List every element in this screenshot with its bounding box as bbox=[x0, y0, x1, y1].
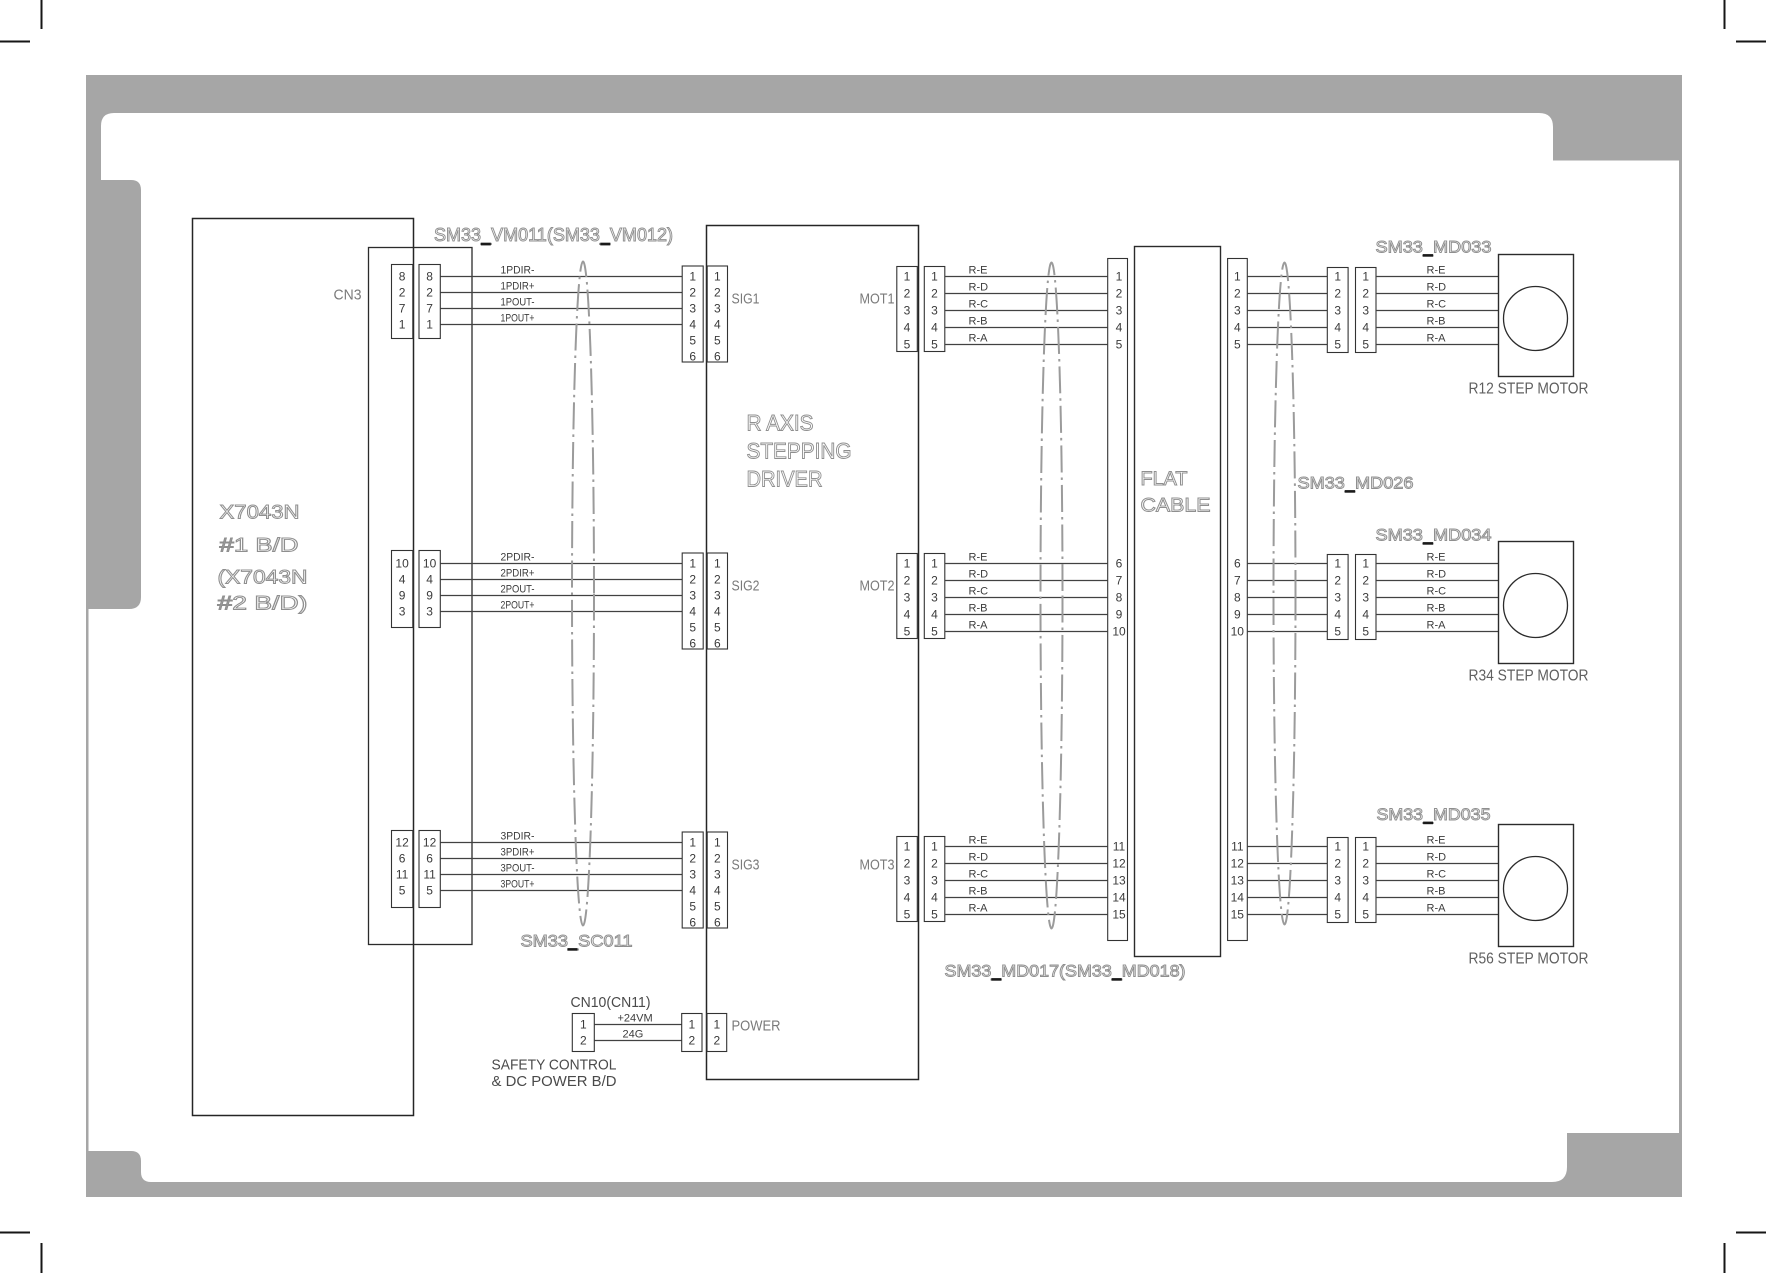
svg-text:1: 1 bbox=[1362, 557, 1369, 571]
wire R-B to step motor 2 bbox=[1376, 614, 1499, 616]
svg-text:1: 1 bbox=[688, 1018, 695, 1032]
svg-text:3: 3 bbox=[714, 302, 721, 316]
svg-text:R-D: R-D bbox=[1427, 282, 1447, 294]
svg-text:R-D: R-D bbox=[969, 282, 989, 294]
svg-text:3: 3 bbox=[689, 868, 696, 882]
svg-text:3: 3 bbox=[399, 605, 406, 619]
svg-text:4: 4 bbox=[1334, 608, 1341, 622]
svg-text:6: 6 bbox=[689, 916, 696, 930]
wire R-D to step motor 3 bbox=[1376, 863, 1499, 865]
svg-text:4: 4 bbox=[1234, 321, 1241, 335]
svg-text:R-A: R-A bbox=[1427, 333, 1447, 345]
svg-text:4: 4 bbox=[1116, 321, 1123, 335]
svg-text:12: 12 bbox=[1112, 857, 1126, 871]
svg-text:5: 5 bbox=[904, 338, 911, 352]
svg-text:1POUT+: 1POUT+ bbox=[501, 313, 535, 325]
svg-text:3PDIR+: 3PDIR+ bbox=[501, 847, 535, 859]
svg-text:1PDIR+: 1PDIR+ bbox=[501, 281, 535, 293]
svg-text:2: 2 bbox=[689, 852, 696, 866]
svg-text:3: 3 bbox=[1362, 874, 1369, 888]
svg-text:2: 2 bbox=[714, 286, 721, 300]
wire R-D to step motor 1 bbox=[1376, 293, 1499, 295]
wire R-A to step motor 3 bbox=[1376, 914, 1499, 916]
svg-text:3: 3 bbox=[931, 591, 938, 605]
svg-text:6: 6 bbox=[1234, 557, 1241, 571]
svg-text:3: 3 bbox=[904, 591, 911, 605]
svg-text:1: 1 bbox=[1234, 270, 1241, 284]
wire 2PDIR+ bbox=[441, 579, 683, 581]
svg-text:4: 4 bbox=[426, 573, 433, 587]
motor cable connector group 3 (right block) bbox=[1356, 838, 1377, 923]
svg-text:5: 5 bbox=[1116, 338, 1123, 352]
svg-text:MOT3: MOT3 bbox=[860, 857, 895, 874]
wire R-A to step motor 1 bbox=[1376, 344, 1499, 346]
wire flat cable 8 to motor connector bbox=[1247, 597, 1327, 599]
wire R-D to step motor 2 bbox=[1376, 580, 1499, 582]
svg-text:6: 6 bbox=[714, 916, 721, 930]
svg-text:2: 2 bbox=[1334, 287, 1341, 301]
svg-text:4: 4 bbox=[689, 884, 696, 898]
svg-text:1POUT-: 1POUT- bbox=[501, 297, 535, 309]
wire 2POUT+ bbox=[441, 611, 683, 613]
svg-text:15: 15 bbox=[1231, 908, 1245, 922]
svg-text:R-E: R-E bbox=[969, 265, 988, 277]
svg-text:SIG2: SIG2 bbox=[732, 578, 760, 595]
svg-text:11: 11 bbox=[423, 868, 436, 882]
svg-text:7: 7 bbox=[1234, 574, 1241, 588]
svg-text:3: 3 bbox=[689, 302, 696, 316]
wire R-C to step motor 1 bbox=[1376, 310, 1499, 312]
svg-text:3: 3 bbox=[931, 304, 938, 318]
svg-text:1: 1 bbox=[714, 270, 721, 284]
svg-text:SM33_SC011: SM33_SC011 bbox=[521, 932, 633, 951]
wire +24VM bbox=[594, 1024, 681, 1026]
motor cable connector group 1 (left block) bbox=[1327, 268, 1348, 353]
svg-text:CABLE: CABLE bbox=[1141, 496, 1211, 517]
svg-text:14: 14 bbox=[1231, 891, 1245, 905]
svg-text:6: 6 bbox=[689, 350, 696, 364]
svg-text:9: 9 bbox=[426, 589, 433, 603]
svg-text:12: 12 bbox=[423, 836, 437, 850]
wire R-B MOT1 to flat cable bbox=[945, 327, 1108, 329]
svg-text:11: 11 bbox=[1231, 840, 1244, 854]
svg-text:R12 STEP MOTOR: R12 STEP MOTOR bbox=[1469, 381, 1589, 398]
svg-text:CN10(CN11): CN10(CN11) bbox=[571, 994, 651, 1011]
svg-text:R-E: R-E bbox=[969, 835, 988, 847]
svg-text:5: 5 bbox=[1362, 908, 1369, 922]
svg-text:2: 2 bbox=[689, 573, 696, 587]
svg-text:#1 B/D: #1 B/D bbox=[220, 536, 299, 557]
svg-text:5: 5 bbox=[1362, 338, 1369, 352]
svg-text:9: 9 bbox=[1116, 608, 1123, 622]
svg-text:2: 2 bbox=[714, 852, 721, 866]
connector SIG1 (outer block) bbox=[682, 266, 703, 362]
connector CN3 pin block group 1 (outer) bbox=[419, 265, 440, 339]
svg-text:5: 5 bbox=[1334, 625, 1341, 639]
svg-text:2: 2 bbox=[1234, 287, 1241, 301]
svg-text:2: 2 bbox=[931, 857, 938, 871]
wire R-E to step motor 3 bbox=[1376, 846, 1499, 848]
svg-text:3: 3 bbox=[1234, 304, 1241, 318]
wire R-D MOT2 to flat cable bbox=[945, 580, 1108, 582]
svg-text:3: 3 bbox=[426, 605, 433, 619]
svg-text:10: 10 bbox=[1112, 625, 1126, 639]
svg-text:R-C: R-C bbox=[1427, 869, 1447, 881]
svg-text:6: 6 bbox=[1116, 557, 1123, 571]
connector MOT2 (outer block) bbox=[924, 554, 945, 639]
svg-text:4: 4 bbox=[689, 605, 696, 619]
wire flat cable 13 to motor connector bbox=[1247, 880, 1327, 882]
svg-text:4: 4 bbox=[689, 318, 696, 332]
cable loop SM33_MD017 bbox=[1041, 263, 1063, 929]
connector CN3 pin block group 3 (outer) bbox=[419, 831, 440, 908]
svg-text:6: 6 bbox=[714, 350, 721, 364]
step motor R56 STEP MOTOR box bbox=[1499, 825, 1574, 947]
svg-text:R-E: R-E bbox=[1427, 265, 1446, 277]
svg-text:6: 6 bbox=[426, 852, 433, 866]
svg-text:X7043N: X7043N bbox=[220, 503, 300, 524]
svg-text:R34 STEP MOTOR: R34 STEP MOTOR bbox=[1469, 668, 1589, 685]
svg-text:1: 1 bbox=[689, 836, 696, 850]
wire R-A MOT1 to flat cable bbox=[945, 344, 1108, 346]
svg-text:3: 3 bbox=[904, 304, 911, 318]
connector MOT3 (outer block) bbox=[924, 837, 945, 922]
svg-text:5: 5 bbox=[904, 908, 911, 922]
svg-text:SM33_MD033: SM33_MD033 bbox=[1376, 238, 1492, 257]
connector SIG3 (outer block) bbox=[682, 832, 703, 928]
wire R-D MOT1 to flat cable bbox=[945, 293, 1108, 295]
connector MOT2 (inner block) bbox=[897, 554, 918, 639]
svg-text:1: 1 bbox=[1116, 270, 1123, 284]
svg-text:1PDIR-: 1PDIR- bbox=[501, 265, 535, 277]
svg-text:R-C: R-C bbox=[969, 586, 989, 598]
svg-text:2: 2 bbox=[904, 574, 911, 588]
svg-text:1: 1 bbox=[426, 318, 433, 332]
svg-text:R-A: R-A bbox=[969, 903, 989, 915]
svg-text:1: 1 bbox=[714, 557, 721, 571]
svg-text:1: 1 bbox=[1334, 557, 1341, 571]
svg-text:4: 4 bbox=[714, 884, 721, 898]
svg-text:3: 3 bbox=[714, 868, 721, 882]
connector SIG1 (inner block) bbox=[707, 266, 727, 362]
wire R-C to step motor 2 bbox=[1376, 597, 1499, 599]
step motor R34 STEP MOTOR rotor circle bbox=[1504, 574, 1568, 638]
svg-text:4: 4 bbox=[714, 605, 721, 619]
wire flat cable 2 to motor connector bbox=[1247, 293, 1327, 295]
svg-text:1: 1 bbox=[714, 836, 721, 850]
svg-text:7: 7 bbox=[399, 302, 406, 316]
wire 3PDIR+ bbox=[441, 858, 683, 860]
svg-text:4: 4 bbox=[1362, 321, 1369, 335]
svg-text:12: 12 bbox=[395, 836, 409, 850]
svg-text:R-B: R-B bbox=[969, 603, 988, 615]
svg-text:2: 2 bbox=[688, 1034, 695, 1048]
svg-text:R-E: R-E bbox=[1427, 835, 1446, 847]
svg-text:5: 5 bbox=[689, 334, 696, 348]
svg-text:R-A: R-A bbox=[969, 620, 989, 632]
wire 3POUT+ bbox=[441, 890, 683, 892]
svg-text:FLAT: FLAT bbox=[1141, 469, 1188, 490]
wire flat cable 7 to motor connector bbox=[1247, 580, 1327, 582]
svg-text:5: 5 bbox=[689, 900, 696, 914]
svg-text:R-A: R-A bbox=[1427, 620, 1447, 632]
wire 24G bbox=[594, 1040, 681, 1042]
wire flat cable 6 to motor connector bbox=[1247, 563, 1327, 565]
svg-text:4: 4 bbox=[399, 573, 406, 587]
svg-text:R AXIS: R AXIS bbox=[747, 411, 814, 436]
svg-text:4: 4 bbox=[1362, 891, 1369, 905]
wire 3POUT- bbox=[441, 874, 683, 876]
wire 3PDIR- bbox=[441, 842, 683, 844]
wire R-E MOT1 to flat cable bbox=[945, 276, 1108, 278]
svg-text:6: 6 bbox=[399, 852, 406, 866]
step motor R12 STEP MOTOR box bbox=[1499, 255, 1574, 377]
svg-text:5: 5 bbox=[904, 625, 911, 639]
svg-text:1: 1 bbox=[904, 557, 911, 571]
svg-text:6: 6 bbox=[689, 637, 696, 651]
wire flat cable 10 to motor connector bbox=[1247, 631, 1327, 633]
svg-text:5: 5 bbox=[714, 621, 721, 635]
svg-text:R-B: R-B bbox=[1427, 316, 1446, 328]
flat cable outline bbox=[1135, 247, 1221, 957]
svg-text:5: 5 bbox=[931, 625, 938, 639]
wire flat cable 11 to motor connector bbox=[1247, 846, 1327, 848]
wire R-D MOT3 to flat cable bbox=[945, 863, 1108, 865]
svg-text:2: 2 bbox=[904, 287, 911, 301]
svg-text:5: 5 bbox=[931, 908, 938, 922]
svg-text:#2 B/D): #2 B/D) bbox=[218, 594, 308, 615]
svg-text:10: 10 bbox=[395, 557, 409, 571]
svg-text:SM33_MD034: SM33_MD034 bbox=[1376, 526, 1492, 545]
svg-text:1: 1 bbox=[580, 1018, 587, 1032]
svg-text:7: 7 bbox=[426, 302, 433, 316]
cable loop SM33_SC011 bbox=[572, 262, 594, 926]
flat cable connector left bbox=[1108, 259, 1128, 941]
svg-text:2: 2 bbox=[426, 286, 433, 300]
svg-text:13: 13 bbox=[1112, 874, 1126, 888]
wire R-C to step motor 3 bbox=[1376, 880, 1499, 882]
svg-text:2: 2 bbox=[1334, 857, 1341, 871]
svg-text:MOT2: MOT2 bbox=[860, 578, 895, 595]
svg-text:11: 11 bbox=[396, 868, 409, 882]
svg-text:4: 4 bbox=[904, 608, 911, 622]
svg-text:SIG1: SIG1 bbox=[732, 291, 760, 308]
svg-text:8: 8 bbox=[1116, 591, 1123, 605]
svg-text:R-A: R-A bbox=[1427, 903, 1447, 915]
svg-text:4: 4 bbox=[1334, 321, 1341, 335]
svg-text:3: 3 bbox=[1334, 874, 1341, 888]
svg-text:4: 4 bbox=[904, 321, 911, 335]
svg-text:4: 4 bbox=[1362, 608, 1369, 622]
wire 1POUT- bbox=[441, 308, 683, 310]
gray page frame bbox=[86, 75, 1682, 1197]
connector CN3 pin block group 3 (inner) bbox=[392, 831, 413, 908]
svg-text:SM33_MD017(SM33_MD018): SM33_MD017(SM33_MD018) bbox=[945, 962, 1186, 981]
svg-text:15: 15 bbox=[1112, 908, 1126, 922]
connector MOT1 (inner block) bbox=[897, 267, 918, 352]
svg-text:1: 1 bbox=[399, 318, 406, 332]
connector MOT1 (outer block) bbox=[924, 267, 945, 352]
svg-text:2: 2 bbox=[904, 857, 911, 871]
svg-text:4: 4 bbox=[931, 321, 938, 335]
svg-text:3: 3 bbox=[714, 589, 721, 603]
wire R-A MOT2 to flat cable bbox=[945, 631, 1108, 633]
svg-text:SM33_VM011(SM33_VM012): SM33_VM011(SM33_VM012) bbox=[434, 225, 673, 246]
wire 1PDIR- bbox=[441, 276, 683, 278]
wire R-C MOT1 to flat cable bbox=[945, 310, 1108, 312]
svg-text:3: 3 bbox=[1116, 304, 1123, 318]
svg-text:POWER: POWER bbox=[732, 1018, 781, 1035]
svg-text:7: 7 bbox=[1116, 574, 1123, 588]
connector POWER (inner block) bbox=[707, 1014, 727, 1052]
wire R-B to step motor 1 bbox=[1376, 327, 1499, 329]
board X7043N #1 B/D outline bbox=[193, 219, 414, 1116]
connector CN3 pin block group 1 (inner) bbox=[392, 265, 413, 339]
wire flat cable 12 to motor connector bbox=[1247, 863, 1327, 865]
svg-text:8: 8 bbox=[1234, 591, 1241, 605]
svg-text:5: 5 bbox=[1334, 908, 1341, 922]
svg-text:1: 1 bbox=[714, 1018, 721, 1032]
svg-text:2: 2 bbox=[1362, 857, 1369, 871]
svg-text:9: 9 bbox=[399, 589, 406, 603]
wire flat cable 1 to motor connector bbox=[1247, 276, 1327, 278]
R axis stepping driver outline bbox=[707, 226, 919, 1080]
svg-text:MOT1: MOT1 bbox=[860, 291, 895, 308]
wire R-A to step motor 2 bbox=[1376, 631, 1499, 633]
svg-text:12: 12 bbox=[1231, 857, 1245, 871]
svg-text:4: 4 bbox=[1334, 891, 1341, 905]
svg-text:2: 2 bbox=[1334, 574, 1341, 588]
svg-text:3: 3 bbox=[1334, 591, 1341, 605]
connector MOT3 (inner block) bbox=[897, 837, 918, 922]
svg-text:9: 9 bbox=[1234, 608, 1241, 622]
svg-text:1: 1 bbox=[904, 840, 911, 854]
svg-text:R-C: R-C bbox=[969, 299, 989, 311]
svg-text:4: 4 bbox=[714, 318, 721, 332]
wire 2PDIR- bbox=[441, 563, 683, 565]
CN3 connector column outline bbox=[369, 248, 473, 945]
svg-text:SIG3: SIG3 bbox=[732, 857, 760, 874]
svg-text:5: 5 bbox=[689, 621, 696, 635]
wire flat cable 9 to motor connector bbox=[1247, 614, 1327, 616]
svg-text:& DC POWER B/D: & DC POWER B/D bbox=[492, 1073, 617, 1090]
svg-text:SAFETY CONTROL: SAFETY CONTROL bbox=[492, 1057, 617, 1074]
wire R-A MOT3 to flat cable bbox=[945, 914, 1108, 916]
svg-text:2: 2 bbox=[931, 574, 938, 588]
svg-text:2: 2 bbox=[399, 286, 406, 300]
flat cable connector right bbox=[1228, 259, 1248, 941]
wire R-C MOT2 to flat cable bbox=[945, 597, 1108, 599]
svg-text:3POUT+: 3POUT+ bbox=[501, 879, 535, 891]
svg-text:3POUT-: 3POUT- bbox=[501, 863, 535, 875]
svg-text:5: 5 bbox=[1362, 625, 1369, 639]
svg-text:SM33_MD035: SM33_MD035 bbox=[1377, 805, 1491, 824]
connector SIG2 (outer block) bbox=[682, 553, 703, 649]
svg-text:R-D: R-D bbox=[969, 569, 989, 581]
step motor R56 STEP MOTOR rotor circle bbox=[1504, 857, 1568, 921]
svg-text:R-B: R-B bbox=[969, 316, 988, 328]
svg-text:+24VM: +24VM bbox=[618, 1013, 653, 1025]
svg-text:6: 6 bbox=[714, 637, 721, 651]
connector POWER (outer block) bbox=[682, 1014, 702, 1052]
svg-text:4: 4 bbox=[931, 608, 938, 622]
svg-text:3: 3 bbox=[1362, 304, 1369, 318]
svg-text:1: 1 bbox=[1334, 270, 1341, 284]
svg-text:(X7043N: (X7043N bbox=[218, 568, 308, 589]
svg-text:8: 8 bbox=[399, 270, 406, 284]
motor cable connector group 1 (right block) bbox=[1356, 268, 1377, 353]
svg-text:R-A: R-A bbox=[969, 333, 989, 345]
wire R-C MOT3 to flat cable bbox=[945, 880, 1108, 882]
svg-text:5: 5 bbox=[399, 884, 406, 898]
motor cable connector group 2 (left block) bbox=[1327, 555, 1348, 640]
svg-text:2: 2 bbox=[714, 1034, 721, 1048]
svg-text:5: 5 bbox=[1234, 338, 1241, 352]
svg-text:2: 2 bbox=[1116, 287, 1123, 301]
svg-text:1: 1 bbox=[931, 557, 938, 571]
svg-text:CN3: CN3 bbox=[334, 287, 362, 304]
svg-text:10: 10 bbox=[1231, 625, 1245, 639]
wire 2POUT- bbox=[441, 595, 683, 597]
wire R-E to step motor 2 bbox=[1376, 563, 1499, 565]
svg-text:5: 5 bbox=[931, 338, 938, 352]
svg-text:8: 8 bbox=[426, 270, 433, 284]
svg-text:DRIVER: DRIVER bbox=[747, 467, 823, 492]
svg-text:10: 10 bbox=[423, 557, 437, 571]
svg-text:11: 11 bbox=[1113, 840, 1126, 854]
svg-text:3PDIR-: 3PDIR- bbox=[501, 831, 535, 843]
svg-text:2: 2 bbox=[689, 286, 696, 300]
connector CN3 pin block group 2 (inner) bbox=[392, 551, 413, 628]
motor cable connector group 3 (left block) bbox=[1327, 838, 1348, 923]
svg-text:R-C: R-C bbox=[969, 869, 989, 881]
svg-text:4: 4 bbox=[904, 891, 911, 905]
connector CN10 bbox=[572, 1014, 594, 1052]
svg-text:24G: 24G bbox=[623, 1029, 644, 1041]
svg-text:STEPPING: STEPPING bbox=[747, 439, 852, 464]
svg-text:14: 14 bbox=[1112, 891, 1126, 905]
svg-text:13: 13 bbox=[1231, 874, 1245, 888]
wire R-B to step motor 3 bbox=[1376, 897, 1499, 899]
step motor R34 STEP MOTOR box bbox=[1499, 542, 1574, 664]
svg-text:5: 5 bbox=[426, 884, 433, 898]
svg-text:1: 1 bbox=[1362, 840, 1369, 854]
svg-text:3: 3 bbox=[904, 874, 911, 888]
cable loop SM33_MD026 bbox=[1274, 263, 1296, 925]
wire R-E to step motor 1 bbox=[1376, 276, 1499, 278]
connector CN3 pin block group 2 (outer) bbox=[419, 551, 440, 628]
svg-text:3: 3 bbox=[689, 589, 696, 603]
svg-text:2: 2 bbox=[714, 573, 721, 587]
svg-text:5: 5 bbox=[1334, 338, 1341, 352]
svg-text:2PDIR-: 2PDIR- bbox=[501, 552, 535, 564]
svg-text:1: 1 bbox=[689, 270, 696, 284]
svg-text:R-D: R-D bbox=[1427, 569, 1447, 581]
svg-text:R-D: R-D bbox=[1427, 852, 1447, 864]
svg-text:SM33_MD026: SM33_MD026 bbox=[1298, 474, 1414, 493]
svg-text:1: 1 bbox=[904, 270, 911, 284]
svg-text:R56 STEP MOTOR: R56 STEP MOTOR bbox=[1469, 951, 1589, 968]
svg-text:1: 1 bbox=[931, 270, 938, 284]
svg-text:R-B: R-B bbox=[969, 886, 988, 898]
svg-text:3: 3 bbox=[931, 874, 938, 888]
svg-text:1: 1 bbox=[1334, 840, 1341, 854]
wire flat cable 15 to motor connector bbox=[1247, 914, 1327, 916]
svg-text:4: 4 bbox=[931, 891, 938, 905]
wire R-E MOT3 to flat cable bbox=[945, 846, 1108, 848]
svg-text:R-C: R-C bbox=[1427, 586, 1447, 598]
wire flat cable 5 to motor connector bbox=[1247, 344, 1327, 346]
